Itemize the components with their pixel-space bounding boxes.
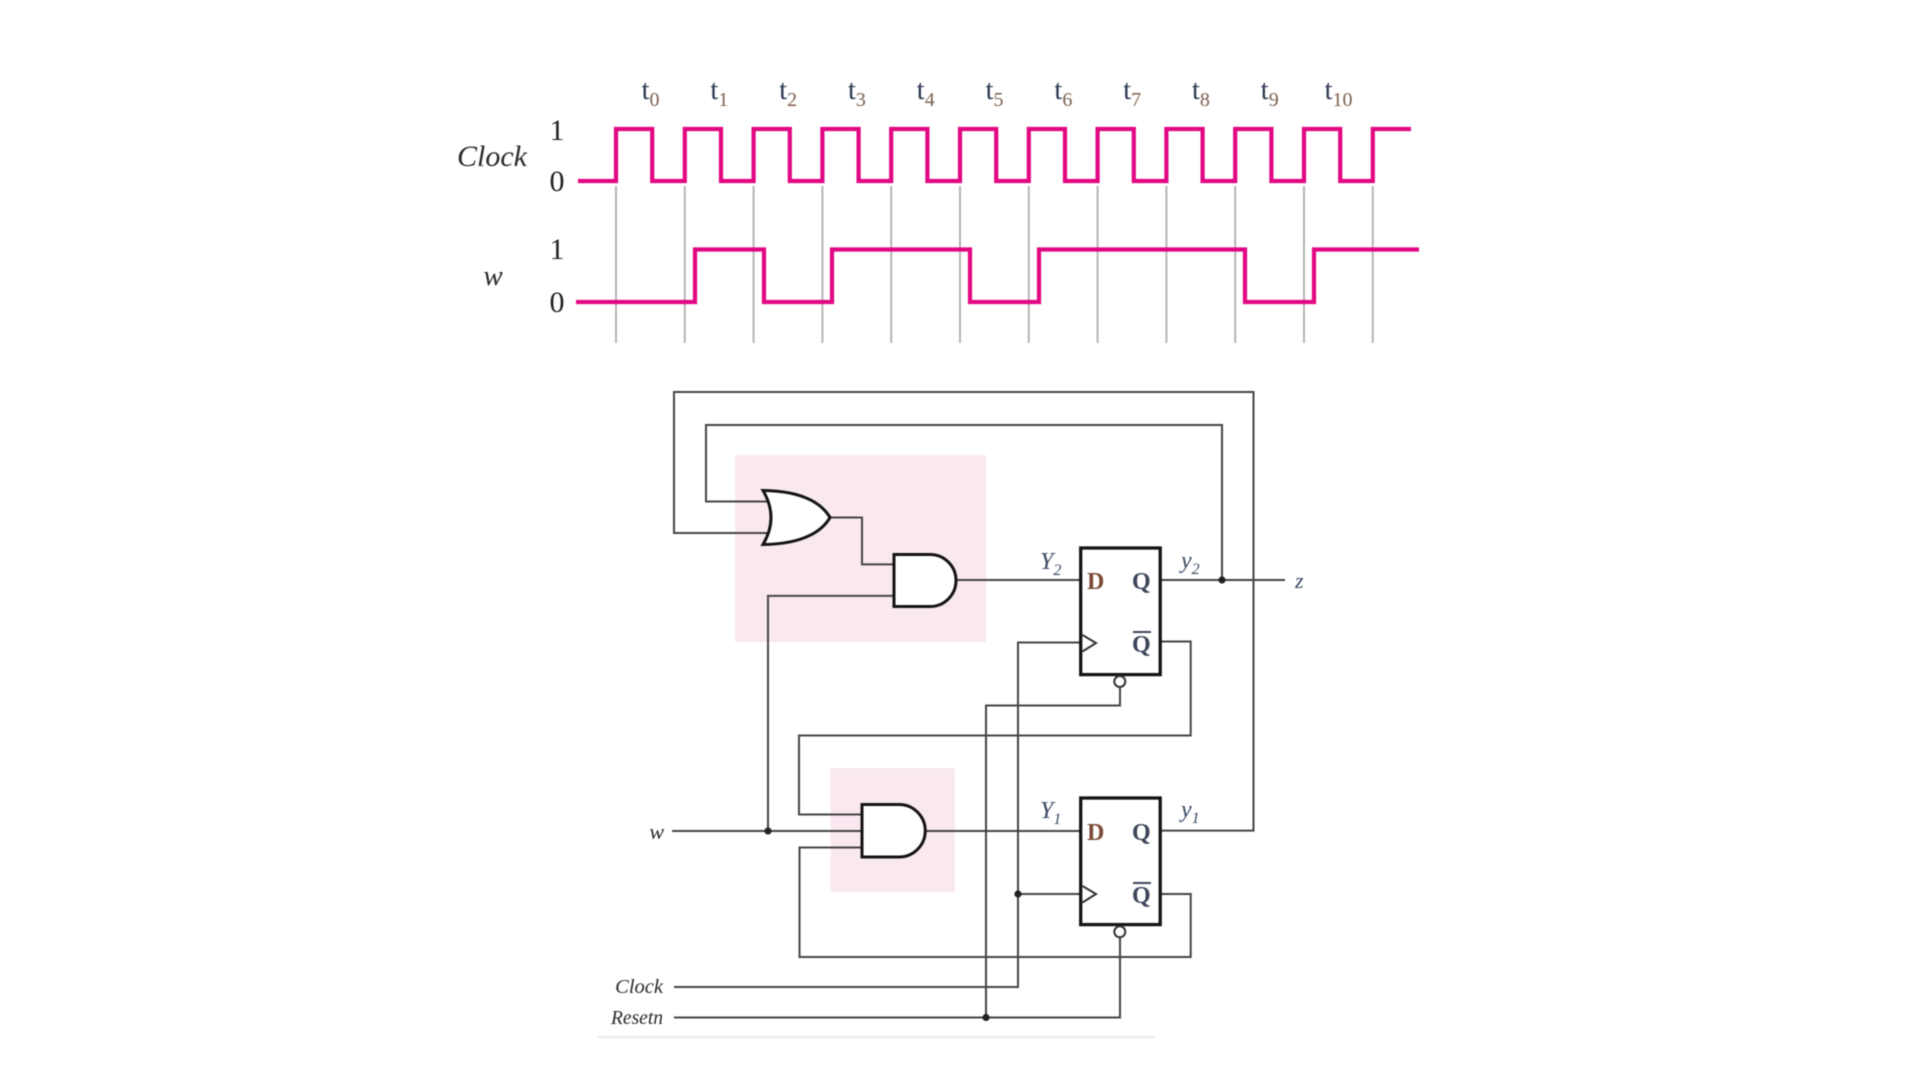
- w waveform: [576, 250, 1419, 303]
- svg-text:Clock: Clock: [615, 976, 664, 998]
- junction dot clock branch: [1014, 890, 1021, 897]
- AND gate bottom (AND2): [862, 805, 925, 858]
- wire: Resetn net: [674, 937, 1120, 1018]
- wire: y2 inner feedback (junction to OR input A): [706, 425, 1222, 580]
- FF2 reset bubble: [1114, 926, 1125, 937]
- junction dot z/y2: [1218, 576, 1225, 583]
- svg-text:Q: Q: [1132, 569, 1151, 595]
- wire: OR output to AND1 input A: [830, 518, 897, 565]
- svg-text:D: D: [1087, 820, 1104, 846]
- svg-text:Resetn: Resetn: [610, 1008, 663, 1029]
- faint separator line: [598, 1036, 1155, 1038]
- Clock waveform: [578, 129, 1411, 181]
- svg-text:D: D: [1087, 569, 1104, 595]
- wire: y1 outer feedback (FF2 Q to OR input B): [674, 392, 1254, 831]
- FF1 reset bubble: [1114, 676, 1125, 687]
- svg-text:1: 1: [550, 114, 565, 147]
- pink highlight box bottom: [831, 768, 955, 892]
- wire: FF2 Qbar to AND2 input C: [800, 848, 1191, 958]
- wire: AND2 output Y1 to FF2 D: [922, 830, 1081, 832]
- wire: Clock net: [674, 643, 1081, 988]
- wire: AND1 output Y2 to FF1 D: [954, 579, 1081, 581]
- junction dot resetn branch: [982, 1014, 989, 1021]
- AND gate top (AND1): [894, 555, 956, 607]
- svg-text:Clock: Clock: [457, 140, 528, 173]
- svg-text:0: 0: [550, 286, 565, 319]
- wire: w riser to AND1 input B: [768, 596, 897, 831]
- wire: FF1 Q to z: [1161, 579, 1286, 581]
- wire: FF1 reset bubble to Resetn riser: [986, 687, 1120, 1018]
- timing grid lines: [615, 186, 617, 343]
- OR gate: [763, 491, 830, 545]
- svg-text:w: w: [649, 819, 664, 844]
- wire: w input: [672, 830, 864, 832]
- FF2 clock triangle: [1083, 886, 1097, 903]
- svg-text:w: w: [483, 260, 503, 292]
- svg-text:1: 1: [550, 233, 565, 266]
- svg-text:0: 0: [550, 165, 565, 198]
- FF1 clock triangle: [1083, 635, 1097, 652]
- svg-text:Q: Q: [1132, 883, 1151, 909]
- junction dot w: [764, 827, 771, 834]
- svg-text:Q: Q: [1132, 820, 1151, 846]
- D flip-flop U1 (top): [1081, 548, 1161, 675]
- wire: clock branch to FF2: [1018, 893, 1081, 895]
- D flip-flop U2 (bottom): [1081, 798, 1161, 925]
- wire: FF1 Qbar to AND2 input A: [799, 642, 1191, 815]
- pink highlight box top: [735, 455, 986, 642]
- svg-text:z: z: [1294, 568, 1304, 593]
- svg-text:Q: Q: [1132, 632, 1151, 658]
